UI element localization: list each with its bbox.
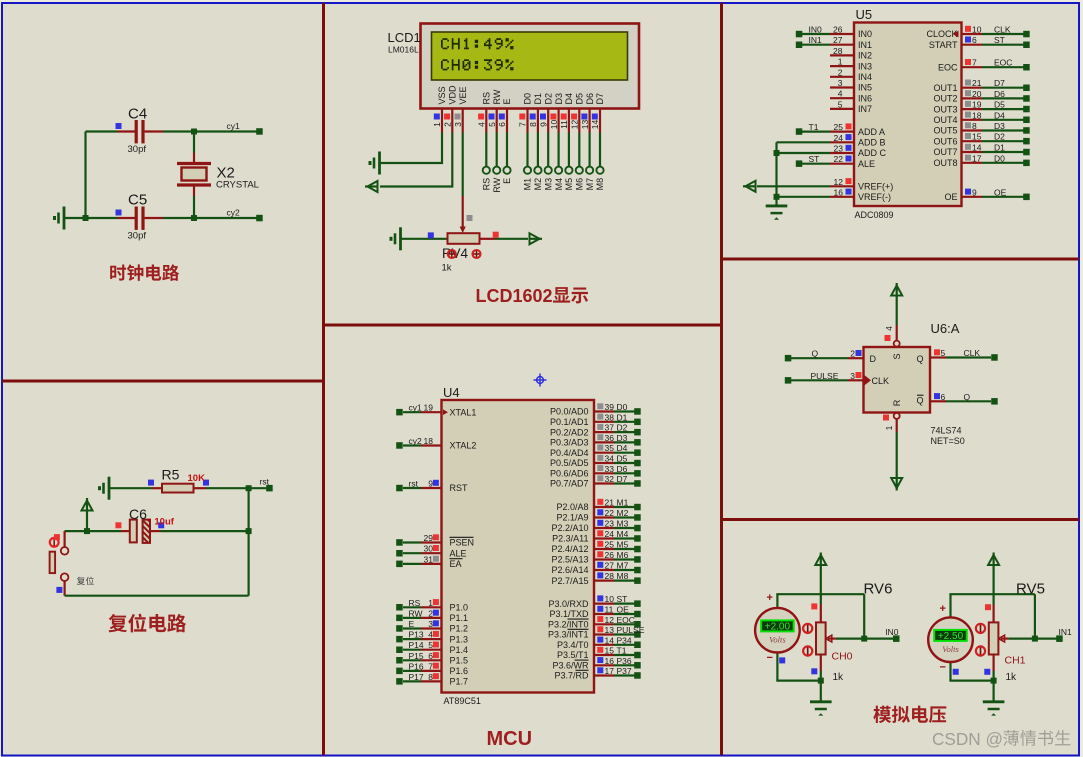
svg-text:IN1: IN1 <box>809 35 823 45</box>
junction node cy1 <box>191 129 197 135</box>
terminal cy2 <box>256 215 263 222</box>
net label M2 <box>533 178 543 191</box>
wire ground to R5 <box>109 487 152 489</box>
wire LCD VDD to power <box>380 133 452 187</box>
U5 pin IN2 28 <box>830 46 872 61</box>
net label cy1 <box>227 121 241 131</box>
value NET=S0 <box>931 436 965 446</box>
wire LCD pin 4 down to terminal RS <box>485 133 487 167</box>
U6 inside label S <box>892 353 902 359</box>
svg-text:23: 23 <box>605 519 615 529</box>
svg-text:OUT1: OUT1 <box>933 83 957 93</box>
svg-text:20: 20 <box>972 89 982 99</box>
LCD1 pin 7 D0 <box>518 93 533 133</box>
svg-text:P34: P34 <box>617 635 632 645</box>
U4 pin ALE 30 <box>396 544 466 559</box>
svg-text:CLOCK: CLOCK <box>926 29 957 39</box>
wire C6 to right rail <box>161 530 249 532</box>
svg-text:P14: P14 <box>409 640 424 650</box>
svg-text:P2.0/A8: P2.0/A8 <box>556 502 588 512</box>
svg-text:D3: D3 <box>994 121 1005 131</box>
svg-text:RW: RW <box>409 608 423 618</box>
svg-text:P3.0/RXD: P3.0/RXD <box>548 599 589 609</box>
value C4 30pf <box>128 144 147 155</box>
svg-text:7: 7 <box>972 58 977 68</box>
svg-text:M5: M5 <box>617 540 629 550</box>
capacitor C6 polarized <box>121 520 161 543</box>
svg-text:34: 34 <box>605 454 615 464</box>
svg-text:28: 28 <box>605 571 615 581</box>
U4 pin P1.7 8 net P17 <box>396 672 468 687</box>
svg-text:D5: D5 <box>575 93 585 105</box>
U6 inside label Qbar <box>916 395 923 405</box>
wire power arrow down to C6 row <box>86 511 88 532</box>
svg-text:D6: D6 <box>994 89 1005 99</box>
svg-text:6: 6 <box>941 392 946 402</box>
svg-text:P0.3/AD3: P0.3/AD3 <box>550 438 589 448</box>
U6 pin D 2 net Q <box>785 349 864 362</box>
svg-text:CLK: CLK <box>872 376 890 386</box>
svg-text:RW: RW <box>492 177 502 192</box>
svg-text:31: 31 <box>424 554 434 564</box>
U5 pin IN5 3 <box>830 78 872 93</box>
pin square RV5 minus <box>953 669 959 675</box>
svg-text:+: + <box>767 592 773 604</box>
svg-text:−: − <box>767 652 773 664</box>
svg-text:EOC: EOC <box>938 62 958 72</box>
svg-text:32: 32 <box>605 474 615 484</box>
LCD1 pin 2 VDD <box>443 85 458 133</box>
svg-text:37: 37 <box>605 423 615 433</box>
U4 pin P3.6/WR 16 net P36 <box>552 656 640 671</box>
svg-text:R5: R5 <box>162 467 180 483</box>
svg-text:IN1: IN1 <box>1059 627 1073 637</box>
U5 pin IN6 4 <box>830 89 872 104</box>
svg-text:P3.3/INT1: P3.3/INT1 <box>548 630 589 640</box>
U4 pin P1.0 1 net RS <box>396 598 468 613</box>
svg-text:P2.2/A10: P2.2/A10 <box>551 523 588 533</box>
svg-text:ALE: ALE <box>450 548 467 558</box>
svg-text:P1.0: P1.0 <box>450 603 469 613</box>
svg-text:5: 5 <box>838 99 843 109</box>
wire LCD pin 6 down to terminal E <box>506 133 508 167</box>
svg-text:RV5: RV5 <box>1016 581 1045 598</box>
wire LCD pin 13 down to terminal M7 <box>588 133 590 167</box>
wire crystal bottom lead <box>193 196 195 218</box>
label C5 <box>128 192 147 209</box>
svg-text:Q: Q <box>964 392 971 402</box>
svg-text:ADD B: ADD B <box>858 138 886 148</box>
terminal M1 <box>524 167 531 174</box>
svg-text:27: 27 <box>833 35 843 45</box>
svg-text:9: 9 <box>428 479 433 489</box>
U4 pin P2.3/A11 24 net M4 <box>552 529 641 544</box>
svg-text:8: 8 <box>528 122 538 127</box>
terminal M4 <box>555 167 562 174</box>
power arrow reset up <box>82 498 93 511</box>
svg-text:CRYSTAL: CRYSTAL <box>216 180 259 191</box>
svg-text:START: START <box>929 40 958 50</box>
svg-text:M3: M3 <box>617 519 629 529</box>
svg-text:P1.3: P1.3 <box>450 634 469 644</box>
section divider horizontal right column lower <box>723 518 1079 521</box>
LCD1 pin 3 VEE <box>453 86 468 132</box>
svg-text:P0.2/AD2: P0.2/AD2 <box>550 427 589 437</box>
U4 pin P2.6/A14 27 net M7 <box>551 561 640 576</box>
voltmeter minus sign RV5 <box>940 661 946 673</box>
svg-text:P2.5/A13: P2.5/A13 <box>551 555 588 565</box>
svg-text:IN2: IN2 <box>858 51 872 61</box>
svg-text:29: 29 <box>424 533 434 543</box>
svg-text:EOC: EOC <box>994 58 1012 68</box>
U4 pin RST 9 net rst <box>396 479 468 494</box>
U4 pin P2.7/A15 28 net M8 <box>551 571 640 586</box>
U5 pin IN4 2 <box>830 67 872 82</box>
svg-text:D7: D7 <box>617 474 628 484</box>
svg-text:1: 1 <box>432 122 442 127</box>
svg-text:P1.7: P1.7 <box>450 677 469 687</box>
LCD screen text line2 CH0:39% <box>441 59 513 70</box>
wire VREF(-) to ground rail <box>777 196 831 198</box>
U6 pin CLK 3 net PULSE <box>785 371 864 384</box>
svg-text:VREF(+): VREF(+) <box>858 182 893 192</box>
svg-text:ST: ST <box>994 35 1005 45</box>
wire LCD pin 10 down to terminal M4 <box>557 133 559 167</box>
wire LCD VEE to RV4 wiper <box>460 133 473 234</box>
svg-text:14: 14 <box>590 120 600 130</box>
svg-text:9: 9 <box>972 187 977 197</box>
net label M4 <box>554 178 564 191</box>
svg-text:10uf: 10uf <box>154 517 174 528</box>
U5 pin ADD C 23 <box>830 144 887 159</box>
switch reset button <box>50 531 69 596</box>
capacitor C5 <box>116 207 164 230</box>
svg-text:22: 22 <box>605 508 615 518</box>
potentiometer RV5 label <box>1016 581 1045 598</box>
svg-text:2: 2 <box>428 608 433 618</box>
wire C5 to node cy2 <box>163 217 194 219</box>
pin square RV6 bottom <box>811 668 817 674</box>
svg-text:RV6: RV6 <box>864 581 893 598</box>
svg-text:13: 13 <box>605 625 615 635</box>
svg-text:U4: U4 <box>443 385 460 400</box>
svg-text:EA: EA <box>450 559 462 569</box>
wire C5 input segment <box>86 217 118 219</box>
label reset button <box>77 577 94 585</box>
voltmeter RV5 +2.50 <box>928 617 973 662</box>
svg-text:cy1: cy1 <box>227 121 241 131</box>
terminal M8 <box>596 167 603 174</box>
svg-text:cy1: cy1 <box>409 403 423 413</box>
svg-text:OUT5: OUT5 <box>933 126 957 136</box>
svg-text:17: 17 <box>972 153 982 163</box>
svg-text:2: 2 <box>443 122 453 127</box>
junction node rst <box>246 485 252 491</box>
svg-text:D2: D2 <box>994 132 1005 142</box>
svg-text:P3.6/WR: P3.6/WR <box>552 661 589 671</box>
svg-text:XTAL2: XTAL2 <box>450 441 477 451</box>
svg-text:P0.7/AD7: P0.7/AD7 <box>550 479 589 489</box>
U5 pin OUT7 14 net D1 <box>933 143 1029 158</box>
knob RV6 up <box>803 624 812 633</box>
svg-text:NET=S0: NET=S0 <box>931 436 965 446</box>
svg-text:P0.1/AD1: P0.1/AD1 <box>550 417 589 427</box>
junction C6 right rail <box>246 528 252 534</box>
U4 pin P2.5/A13 26 net M6 <box>551 550 640 565</box>
label U6:A <box>931 321 960 336</box>
svg-text:38: 38 <box>605 412 615 422</box>
value AT89C51 <box>444 696 481 706</box>
U4 pin P0.0/AD0 39 net D0 <box>550 402 641 417</box>
value RV5 CH1 <box>1005 655 1026 667</box>
value LM016L <box>388 45 419 55</box>
svg-text:2: 2 <box>850 349 855 359</box>
knob RV6 down <box>803 646 812 655</box>
value X2 CRYSTAL <box>216 180 259 191</box>
svg-text:P2.4/A12: P2.4/A12 <box>551 544 588 554</box>
svg-text:IN4: IN4 <box>858 72 872 82</box>
svg-text:C4: C4 <box>128 106 147 123</box>
junction node cy2 <box>191 215 197 221</box>
svg-text:OE: OE <box>944 192 957 202</box>
svg-text:24: 24 <box>834 133 844 143</box>
pin square RV4 left <box>428 232 434 238</box>
voltmeter plus sign RV5 <box>940 603 946 615</box>
svg-text:12: 12 <box>570 120 580 130</box>
svg-text:19: 19 <box>972 100 982 110</box>
svg-text:10: 10 <box>605 594 615 604</box>
section divider horizontal left column <box>2 380 322 383</box>
svg-text:E: E <box>409 619 415 629</box>
wire U5 ST to ALE <box>796 154 830 167</box>
wire U5 ADD B to rail <box>777 141 831 143</box>
power arrow VDD left <box>365 181 378 192</box>
terminal M3 <box>545 167 552 174</box>
wire LCD pin 8 down to terminal M2 <box>537 133 539 167</box>
LCD1 pin 9 D2 <box>538 93 553 133</box>
svg-text:7: 7 <box>428 661 433 671</box>
net label M6 <box>575 178 585 191</box>
svg-text:D4: D4 <box>564 93 574 105</box>
svg-text:P3.1/TXD: P3.1/TXD <box>549 609 589 619</box>
ground GND U5 <box>766 206 788 220</box>
svg-text:M2: M2 <box>533 178 543 191</box>
svg-text:M8: M8 <box>617 571 629 581</box>
section divider vertical left <box>322 3 325 755</box>
power arrow VREF left <box>743 181 756 192</box>
U4 pin P3.1/TXD 11 net OE <box>549 605 640 620</box>
svg-text:OUT4: OUT4 <box>933 115 957 125</box>
svg-text:rst: rst <box>260 477 270 487</box>
svg-text:1k: 1k <box>1006 672 1018 683</box>
svg-text:AT89C51: AT89C51 <box>444 696 481 706</box>
pin square button top <box>54 534 60 540</box>
U6 pin R 1 with bubble <box>883 413 900 478</box>
svg-text:P16: P16 <box>409 661 424 671</box>
power arrow RV4 right <box>530 233 543 244</box>
svg-text:rst: rst <box>409 479 419 489</box>
U4 pin P1.6 7 net P16 <box>396 661 468 676</box>
U4 pin P1.5 6 net P15 <box>396 651 468 666</box>
U6 clock triangle <box>865 375 872 385</box>
svg-text:18: 18 <box>972 110 982 120</box>
svg-text:ADC0809: ADC0809 <box>855 210 894 220</box>
value R5 10K <box>188 473 206 484</box>
value RV6 CH0 <box>832 651 853 663</box>
svg-text:17: 17 <box>605 666 615 676</box>
svg-text:P2.1/A9: P2.1/A9 <box>556 513 588 523</box>
svg-text:D2: D2 <box>543 93 553 105</box>
svg-text:3: 3 <box>453 122 463 127</box>
svg-text:RW: RW <box>492 89 502 104</box>
svg-text:M4: M4 <box>554 178 564 191</box>
svg-text:D1: D1 <box>533 93 543 105</box>
svg-text:VEE: VEE <box>458 86 468 104</box>
svg-text:15: 15 <box>972 132 982 142</box>
svg-text:OE: OE <box>617 605 630 615</box>
svg-text:PULSE: PULSE <box>617 625 645 635</box>
U5 pin OUT4 18 net D4 <box>933 110 1029 125</box>
U4 pin PSEN 29 <box>396 533 474 548</box>
svg-text:24: 24 <box>605 529 615 539</box>
svg-text:RS: RS <box>409 598 421 608</box>
svg-text:M8: M8 <box>595 178 605 191</box>
U4 pin XTAL1 19 net cy1 <box>396 403 476 418</box>
svg-text:30: 30 <box>424 544 434 554</box>
label RV4 <box>442 246 469 261</box>
svg-text:D0: D0 <box>523 93 533 105</box>
wire crystal top lead <box>193 132 195 163</box>
voltmeter RV6 +2.00 <box>755 608 800 653</box>
LCD1 pin 6 E <box>497 98 512 132</box>
svg-text:M7: M7 <box>585 178 595 191</box>
svg-text:M1: M1 <box>617 498 629 508</box>
svg-text:MCU: MCU <box>487 728 533 750</box>
label U4 <box>443 385 460 400</box>
wire LCD pin 5 down to terminal RW <box>496 133 498 167</box>
svg-text:25: 25 <box>605 540 615 550</box>
svg-text:P37: P37 <box>617 666 632 676</box>
svg-text:CSDN @: CSDN @ <box>932 729 1003 749</box>
svg-text:D0: D0 <box>994 153 1005 163</box>
U4 pin P2.4/A12 25 net M5 <box>551 540 640 555</box>
svg-text:P36: P36 <box>617 656 632 666</box>
terminal M5 <box>565 167 572 174</box>
svg-text:Q: Q <box>812 349 819 359</box>
svg-text:T1: T1 <box>617 646 627 656</box>
svg-text:+2.00: +2.00 <box>765 622 791 633</box>
svg-text:M7: M7 <box>617 561 629 571</box>
U4 pin P3.3/INT1 13 net PULSE <box>548 625 645 640</box>
svg-text:1k: 1k <box>442 263 452 274</box>
svg-text:M6: M6 <box>575 178 585 191</box>
svg-text:P15: P15 <box>409 651 424 661</box>
svg-text:OUT6: OUT6 <box>933 136 957 146</box>
svg-text:D5: D5 <box>994 100 1005 110</box>
svg-text:4: 4 <box>884 326 894 331</box>
capacitor C4 <box>116 120 164 143</box>
wire RV4 right lead <box>480 238 529 240</box>
svg-text:P3.7/RD: P3.7/RD <box>554 671 589 681</box>
svg-text:25: 25 <box>834 122 844 132</box>
svg-text:4: 4 <box>428 630 433 640</box>
svg-text:39: 39 <box>605 402 615 412</box>
svg-text:D1: D1 <box>617 412 628 422</box>
U4 pin P0.2/AD2 37 net D2 <box>550 423 641 438</box>
wire LCD pin 14 down to terminal M8 <box>599 133 601 167</box>
svg-text:1: 1 <box>838 57 843 67</box>
svg-text:VREF(-): VREF(-) <box>858 192 891 202</box>
wire right rail vertical <box>248 488 250 596</box>
svg-text:P0.0/AD0: P0.0/AD0 <box>550 407 589 417</box>
terminal RW <box>493 167 500 174</box>
U6 inside label R <box>892 399 902 406</box>
svg-text:21: 21 <box>605 498 615 508</box>
wire network RV5 potentiometer circuit <box>949 553 1072 716</box>
svg-text:12: 12 <box>834 177 844 187</box>
watermark CSDN <box>932 729 1070 749</box>
pin square R5 left <box>148 480 154 486</box>
U4 pin P2.1/A9 22 net M2 <box>556 508 640 523</box>
svg-text:4: 4 <box>477 122 487 127</box>
svg-text:10: 10 <box>549 120 559 130</box>
U5 pin OUT6 15 net D2 <box>933 132 1029 147</box>
pin square RV6 minus <box>779 657 785 663</box>
svg-text:D7: D7 <box>994 78 1005 88</box>
U5 pin START 6 net ST <box>929 35 1030 50</box>
ground GND RV4 <box>390 227 401 250</box>
junction C6 row power <box>84 528 90 534</box>
resistor R5 <box>152 484 206 493</box>
terminal M7 <box>586 167 593 174</box>
net label E <box>502 178 512 184</box>
voltmeter plus sign RV6 <box>767 592 773 604</box>
svg-text:28: 28 <box>833 46 843 56</box>
svg-text:74LS74: 74LS74 <box>931 426 962 436</box>
U5 pin OUT8 17 net D0 <box>933 153 1029 168</box>
wire LCD pin 7 down to terminal M1 <box>526 133 528 167</box>
value RV4 1k <box>442 263 452 274</box>
U5 pin ADD A 25 <box>830 122 885 137</box>
svg-text:RS: RS <box>482 92 492 105</box>
svg-text:PULSE: PULSE <box>811 371 839 381</box>
svg-text:2: 2 <box>838 67 843 77</box>
wire ADD ground rail vertical <box>775 142 777 205</box>
terminal M2 <box>534 167 541 174</box>
svg-text:Volts: Volts <box>769 635 786 645</box>
svg-text:3: 3 <box>850 371 855 381</box>
terminal cy1 <box>256 128 263 135</box>
op-amp U4 chip body AT89C51 <box>442 400 595 693</box>
U5 pin VREF(+) 12 <box>830 177 893 192</box>
U4 pin P1.1 2 net RW <box>396 608 468 623</box>
U5 pin ALE 22 <box>830 154 875 169</box>
U6 inside label CLK <box>872 376 890 386</box>
svg-text:OUT7: OUT7 <box>933 147 957 157</box>
potentiometer RV6 label <box>864 581 893 598</box>
value RV5 1k <box>1006 672 1018 683</box>
title reset circuit <box>108 614 186 633</box>
net label rst <box>260 477 270 487</box>
svg-text:21: 21 <box>972 78 982 88</box>
svg-text:LCD1602: LCD1602 <box>476 286 553 306</box>
svg-text:OUT8: OUT8 <box>933 158 957 168</box>
svg-text:D1: D1 <box>994 143 1005 153</box>
svg-text:26: 26 <box>833 25 843 35</box>
svg-text:U6:A: U6:A <box>931 321 960 336</box>
svg-text:+: + <box>940 603 946 615</box>
terminal E <box>503 167 510 174</box>
